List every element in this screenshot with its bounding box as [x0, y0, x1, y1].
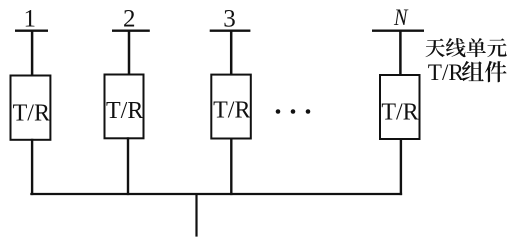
svg-text:3: 3 — [223, 6, 236, 33]
wire T/R 2 to bus — [127, 137, 129, 195]
wire antenna 3 to T/R box — [230, 30, 233, 76]
ellipsis dot 2 — [291, 109, 296, 114]
label 天线单元 (antenna element) — [425, 38, 506, 57]
bus wire (feed manifold horizontal) — [30, 193, 402, 195]
antenna 1 top bar — [15, 30, 48, 32]
svg-text:T/R: T/R — [13, 101, 50, 127]
ellipsis dot 3 — [306, 109, 311, 114]
svg-text:T/R: T/R — [381, 100, 418, 126]
wire T/R 1 to bus — [31, 139, 33, 195]
feed port stub wire — [195, 194, 197, 237]
svg-text:T/R: T/R — [213, 98, 250, 124]
T/R module UN box — [380, 75, 420, 139]
svg-text:1: 1 — [24, 6, 37, 33]
label T/R组件 (T/R module) — [428, 60, 507, 86]
svg-text:N: N — [393, 5, 409, 30]
svg-text:T/R: T/R — [428, 60, 465, 86]
wire antenna N to T/R box — [399, 30, 402, 77]
wire T/R 3 to bus — [230, 138, 232, 196]
antenna 2 top bar — [112, 30, 150, 32]
antenna 3 top bar — [210, 30, 251, 32]
wire antenna 2 to T/R box — [128, 30, 131, 76]
ellipsis dot 1 — [276, 109, 281, 114]
wire T/R N to bus — [400, 138, 402, 195]
T/R module U3 box — [211, 75, 251, 139]
T/R module U2 box — [105, 75, 144, 139]
T/R module U1 box — [11, 76, 51, 140]
svg-text:T/R: T/R — [106, 98, 143, 124]
svg-text:2: 2 — [123, 6, 136, 33]
antenna N top bar — [372, 30, 424, 32]
wire antenna 1 to T/R box — [31, 30, 34, 77]
